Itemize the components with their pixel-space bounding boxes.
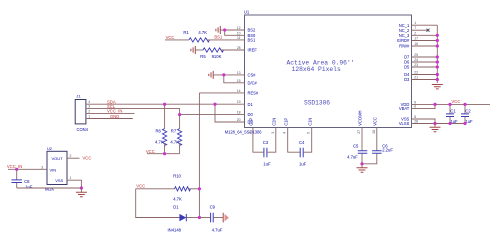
ground under VSS/VLSS: [430, 124, 441, 132]
svg-text:CS#: CS#: [248, 73, 257, 78]
svg-text:C5: C5: [353, 143, 359, 148]
wire C9 to ground arrow: [213, 217, 223, 219]
ground under U2: [76, 188, 87, 197]
svg-text:C2: C2: [465, 109, 471, 114]
svg-text:J1: J1: [76, 94, 80, 99]
IC U1 right pin numbers: [414, 21, 418, 123]
svg-text:28: 28: [237, 46, 241, 50]
diode D1 IN4148: [168, 204, 187, 232]
wire BS2 pin 12: [225, 29, 245, 31]
wire NC_2 stub: [412, 29, 428, 31]
ground under right bus: [432, 85, 443, 89]
wire VDD VCC rail: [412, 103, 491, 105]
svg-text:3: 3: [271, 132, 275, 134]
svg-text:U1: U1: [244, 10, 250, 15]
wire VCC pin down: [376, 128, 378, 151]
svg-text:4.7uF: 4.7uF: [347, 154, 358, 159]
wire D1 cathode to RES# net: [187, 217, 200, 219]
resistor R5: [200, 48, 223, 59]
no-connect X on NC_2: [427, 29, 430, 32]
ground arrow after C9: [223, 213, 229, 223]
svg-text:VCC: VCC: [452, 99, 461, 104]
svg-text:662K: 662K: [45, 186, 55, 191]
svg-text:2: 2: [248, 132, 252, 134]
svg-text:R10: R10: [173, 174, 181, 179]
svg-text:1uF: 1uF: [465, 119, 473, 124]
regulator U2 outline: [45, 146, 67, 191]
svg-text:BS2: BS2: [248, 28, 256, 33]
svg-text:1uF: 1uF: [299, 162, 307, 167]
node SDA/D2 junction: [213, 103, 216, 106]
wire C1N down: [304, 128, 312, 153]
IC U1 SSD1306 outline: [244, 10, 412, 128]
node SDA/R6 junction: [163, 103, 166, 106]
svg-text:R/W#: R/W#: [399, 44, 410, 49]
wire D2 strap to SDA: [215, 104, 245, 122]
U2 pin numbers: [41, 154, 71, 180]
node C5/C6 junction: [360, 162, 363, 165]
capacitor C1: [446, 104, 458, 123]
svg-text:4.7K: 4.7K: [170, 139, 179, 144]
net label GND: [110, 114, 119, 119]
node SCL/R7 junction: [178, 113, 181, 116]
svg-text:IREF: IREF: [248, 48, 258, 53]
wire VBAT jog: [412, 104, 436, 108]
capacitor C2: [461, 104, 473, 123]
wire D7 to bus: [412, 56, 438, 58]
svg-text:15: 15: [237, 79, 241, 83]
svg-text:M128_64_SSD1306: M128_64_SSD1306: [225, 129, 263, 134]
wire R6 top: [164, 104, 166, 128]
IC U1 bottom pin numbers: [248, 130, 376, 134]
svg-text:28: 28: [414, 120, 418, 124]
svg-text:C4: C4: [299, 140, 305, 145]
wire NC_3 to bus: [412, 34, 438, 36]
svg-text:VCOMH: VCOMH: [358, 111, 363, 126]
svg-text:2: 2: [88, 109, 90, 113]
net label VCC right: [452, 99, 461, 104]
svg-text:2: 2: [414, 31, 416, 35]
svg-text:D0: D0: [248, 112, 254, 117]
wire R10 to RES# net: [189, 188, 200, 190]
capacitor C6: [372, 143, 393, 153]
svg-text:1: 1: [414, 21, 416, 25]
IC U1 module name: [225, 129, 263, 134]
node R6 bottom junction: [163, 152, 166, 155]
ground sideways for BS2/BS0: [216, 26, 225, 34]
wire D3 to bus: [412, 79, 438, 81]
svg-text:C1N: C1N: [307, 118, 312, 126]
svg-text:BS1: BS1: [214, 35, 223, 40]
svg-text:21: 21: [414, 76, 418, 80]
svg-text:4.7uF: 4.7uF: [212, 228, 223, 233]
wire C6 bottom: [362, 153, 377, 163]
IC U1 bottom pin names: [249, 111, 378, 126]
resistor R6: [155, 129, 167, 146]
node R10/RES# junction: [198, 187, 201, 190]
svg-text:E/RD#: E/RD#: [397, 38, 410, 43]
wire VCC_IN stub: [86, 112, 135, 114]
node D1/C9/RES# junction: [198, 216, 201, 219]
wire VCC to R1: [165, 39, 189, 41]
IC U1 left pin numbers: [237, 26, 241, 122]
svg-text:1uF: 1uF: [263, 162, 271, 167]
svg-text:VCC_IN: VCC_IN: [7, 164, 22, 169]
svg-text:VCC: VCC: [372, 117, 377, 126]
wire D4 to bus: [412, 74, 438, 76]
svg-text:10: 10: [237, 31, 241, 35]
node C2 top junction: [463, 103, 466, 106]
svg-text:D1: D1: [248, 102, 254, 107]
svg-text:13: 13: [237, 71, 241, 75]
ground sideways for CS#/DC#: [209, 71, 245, 79]
svg-text:27: 27: [357, 130, 361, 134]
svg-text:D/C#: D/C#: [248, 80, 258, 85]
wire GND stub: [86, 118, 133, 120]
wire R7 top: [179, 115, 181, 129]
svg-text:2.2uF: 2.2uF: [382, 147, 393, 152]
svg-text:1uF: 1uF: [25, 185, 33, 190]
svg-text:VCC: VCC: [166, 35, 175, 40]
IC U1 right pin names: [397, 23, 410, 126]
wire C8 to U2 VSS ground: [17, 187, 82, 189]
wire C1P down: [288, 128, 300, 153]
net label SDA: [107, 99, 116, 104]
node C1 top junction: [448, 103, 451, 106]
svg-text:8: 8: [414, 115, 416, 119]
IC U1 value SSD1306: [304, 99, 330, 106]
svg-text:C1: C1: [450, 109, 456, 114]
wire C2N down: [267, 128, 275, 153]
svg-text:5: 5: [307, 132, 311, 134]
wire D6 to bus: [412, 61, 438, 63]
svg-text:4.7K: 4.7K: [173, 197, 182, 202]
svg-text:7: 7: [414, 26, 416, 30]
wire VCC_IN to VIN: [8, 168, 47, 170]
node U2 VSS junction: [80, 186, 83, 189]
net label BS1: [214, 35, 223, 40]
svg-text:C1P: C1P: [283, 118, 288, 126]
svg-text:1: 1: [88, 115, 90, 119]
wire VLSS rail: [412, 123, 466, 125]
net label VCC at U2 out: [83, 155, 92, 160]
capacitor C9: [210, 204, 223, 232]
svg-text:17: 17: [414, 37, 418, 41]
net label VCC_IN at J1: [107, 109, 122, 114]
wire R6 bottom: [164, 143, 166, 153]
wire SDA net: [86, 103, 245, 105]
nodes on VLSS rail: [433, 122, 466, 125]
capacitor C4: [299, 140, 307, 166]
wire R/W# to bus: [412, 45, 438, 47]
svg-text:VLSS: VLSS: [399, 121, 410, 126]
svg-text:12: 12: [237, 26, 241, 30]
svg-text:C9: C9: [210, 204, 216, 209]
svg-text:C3: C3: [263, 140, 269, 145]
svg-text:23: 23: [414, 63, 418, 67]
net label SCL: [107, 104, 116, 109]
svg-text:R5: R5: [200, 54, 206, 59]
svg-text:U2: U2: [47, 146, 52, 151]
connector J1 CON4: [75, 94, 88, 132]
svg-text:VCC: VCC: [146, 149, 155, 154]
svg-text:VBAT: VBAT: [399, 106, 410, 111]
svg-text:BS1: BS1: [248, 38, 256, 43]
capacitor C5: [347, 143, 367, 159]
svg-text:IN4148: IN4148: [168, 228, 182, 233]
net label VCC at R1: [166, 35, 175, 40]
capacitor C8: [12, 169, 33, 189]
wire VSS to ground: [67, 180, 81, 188]
svg-text:128x64 Pixels: 128x64 Pixels: [292, 66, 341, 73]
svg-text:VCC: VCC: [83, 155, 92, 160]
svg-text:4: 4: [88, 100, 90, 104]
IC U1 left pin names: [248, 28, 259, 125]
svg-text:D1: D1: [173, 204, 179, 209]
IC U1 inside text 128x64 Pixels: [292, 66, 341, 73]
wire VCC down to D1: [136, 189, 180, 218]
IC U1 inside text Active Area: [287, 60, 355, 67]
svg-text:D5: D5: [404, 65, 410, 70]
U2 pin names: [50, 156, 64, 183]
wire right bus vertical: [436, 25, 438, 83]
svg-text:910K: 910K: [212, 54, 222, 59]
svg-text:RES#: RES#: [248, 91, 259, 96]
svg-text:6: 6: [414, 105, 416, 109]
wire R7 bottom: [179, 143, 181, 153]
ground sideways for R5: [191, 46, 203, 54]
wire VCOMH down: [361, 128, 363, 151]
svg-text:4.7K: 4.7K: [155, 139, 164, 144]
svg-text:GND: GND: [110, 114, 119, 119]
node VBAT junction: [433, 103, 436, 106]
node CS# junction: [222, 73, 225, 76]
svg-text:20: 20: [237, 118, 241, 122]
svg-text:4: 4: [283, 132, 287, 134]
svg-text:18: 18: [237, 111, 241, 115]
svg-text:19: 19: [237, 100, 241, 104]
svg-text:VIN: VIN: [50, 167, 57, 172]
wire R5 to IREF pin 28: [221, 49, 245, 51]
resistor R1: [183, 30, 209, 42]
svg-text:1: 1: [70, 176, 72, 180]
node VCC_IN/C8 junction: [15, 168, 18, 171]
wire BS0 pin 10: [225, 30, 245, 35]
resistor R7: [170, 129, 181, 146]
svg-text:25: 25: [414, 53, 418, 57]
svg-text:VOUT: VOUT: [52, 156, 64, 161]
net label VCC_IN at U2: [7, 164, 22, 169]
svg-text:R1: R1: [183, 30, 189, 35]
capacitor C3: [263, 140, 271, 166]
svg-text:VCC: VCC: [136, 183, 145, 188]
svg-text:R7: R7: [171, 129, 177, 134]
svg-text:D3: D3: [404, 77, 410, 82]
svg-text:22: 22: [414, 71, 418, 75]
svg-text:VSS: VSS: [55, 178, 63, 183]
wire SCL net: [86, 109, 180, 115]
svg-text:11: 11: [237, 36, 241, 40]
svg-text:C2P: C2P: [249, 118, 254, 126]
svg-text:3: 3: [41, 165, 43, 169]
wire R1 to BS1 pin 11: [207, 39, 245, 41]
wire VOUT: [67, 157, 80, 159]
svg-text:14: 14: [237, 89, 241, 93]
svg-text:2: 2: [70, 154, 72, 158]
wire RES# net to C9: [199, 217, 210, 219]
wire VCC to R10: [136, 188, 175, 190]
svg-text:28: 28: [372, 130, 376, 134]
svg-text:16: 16: [414, 42, 418, 46]
wire NC_1 to bus: [412, 24, 438, 26]
ground under C5: [357, 164, 368, 172]
svg-text:CON4: CON4: [77, 127, 89, 132]
wire SCL to D0 pin 18: [180, 114, 245, 116]
nodes on right bus: [436, 34, 439, 81]
wire VCC rail under pullups: [147, 153, 180, 155]
svg-text:C8: C8: [24, 179, 30, 184]
svg-text:C2N: C2N: [271, 118, 276, 126]
wire D5 to bus: [412, 66, 438, 68]
wire VSS jog: [412, 119, 436, 124]
net label VCC under pullups: [146, 149, 155, 154]
svg-text:SSD1306: SSD1306: [304, 99, 330, 106]
wire C5 bottom: [361, 153, 363, 163]
svg-text:4.7K: 4.7K: [198, 30, 207, 35]
node BS strap junction: [223, 28, 226, 31]
wire D/C# pin 15: [224, 75, 245, 83]
wire E/RD# to bus: [412, 40, 438, 42]
svg-text:24: 24: [414, 58, 418, 62]
svg-text:3: 3: [88, 105, 90, 109]
wire RES# pin 14: [199, 92, 244, 94]
wire RES# vertical: [198, 93, 200, 218]
net label VCC at R10: [136, 183, 145, 188]
connector J1 pin numbers: [88, 100, 90, 118]
resistor R10: [173, 174, 190, 202]
wire C2P down: [253, 128, 264, 153]
svg-text:R6: R6: [156, 129, 162, 134]
